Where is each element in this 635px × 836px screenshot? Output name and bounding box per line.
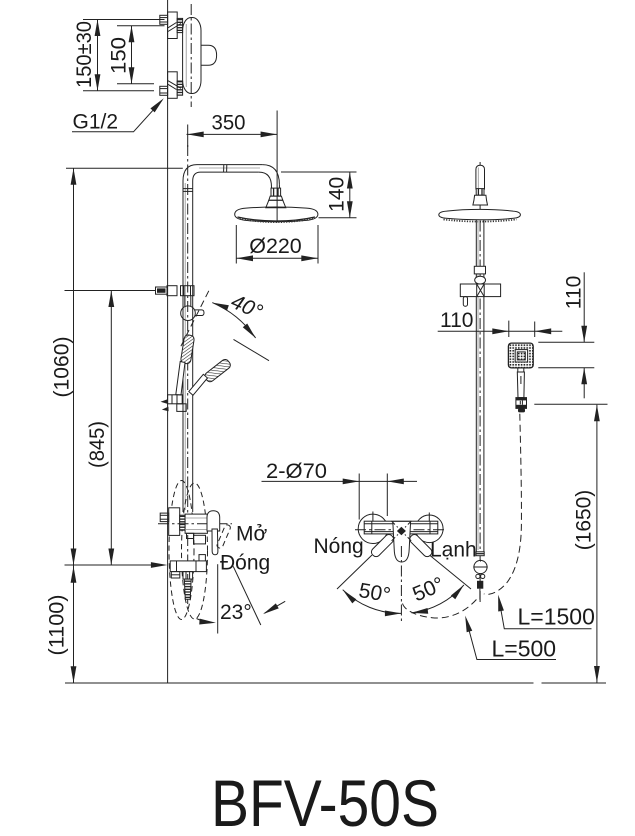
dimension Ø220 extension left [235,225,237,264]
valve lever open (dashed) [216,524,231,549]
dimension Ø220 line and arrows [236,257,318,259]
hand shower tilted handle [189,374,208,395]
dimension 150±30 line and arrows [97,20,99,91]
faucet horizontal centerline [355,529,447,531]
valve handle base [207,511,220,531]
label L=500 leader [466,619,556,660]
holder knob [156,287,168,294]
svg-text:110: 110 [440,309,473,332]
valve body cylinder [185,514,207,533]
valve detail bottom hex nut [160,86,168,95]
right head ball nut [476,189,484,196]
shower arm left elbow [183,165,197,181]
dimension 150 line and arrows [131,26,133,84]
valve detail centerline [190,4,192,107]
hose from valve (L=500) [403,597,479,618]
hand shower upright head [180,334,194,364]
valve detail body [183,18,201,94]
right bracket pin [463,297,467,307]
valve detail bottom threaded inlet [177,81,182,95]
svg-text:23°: 23° [220,601,252,624]
svg-text:G1/2: G1/2 [73,111,119,134]
valve detail bottom eccentric link [168,81,181,90]
valve outlet nut left [171,572,180,578]
dimension (1060) line and arrows [73,168,75,565]
head flare upper [269,196,283,200]
dimension 110 (height) line segments [583,272,585,398]
svg-text:L=1500: L=1500 [518,604,595,630]
dimension 350 extension left [187,125,189,148]
valve hex nut at wall [160,513,169,522]
holder wall block [167,286,177,296]
svg-text:Lạnh: Lạnh [430,539,477,562]
angle 40 deg arc arrows [211,300,228,311]
shower column left wall [182,181,184,512]
valve wall block [169,508,180,536]
valve detail top threaded inlet [177,18,182,32]
dimension (1650) extension top [534,403,607,405]
faucet handle wing right [408,533,433,558]
right valve tail centerline [479,589,481,600]
valve detail knob [201,45,217,65]
overhead head rim shading [238,217,316,221]
shower column joint rings [183,189,193,192]
holder neck [185,296,191,307]
dimension 2-Ø70 arrows [343,479,360,485]
svg-text:50°: 50° [409,573,447,607]
shower column inner shading [184,183,186,510]
dimension 140 line and arrows [349,172,351,218]
dimension Ø220 extension right [317,225,319,264]
hand shower upright handle [176,362,185,396]
hand shower tilted head (40 deg position) [203,358,232,383]
faucet cartridge [393,521,411,562]
right head flare [473,195,488,205]
valve outlet hex [183,572,193,580]
svg-text:(1650): (1650) [573,490,596,551]
extension line top of column [66,167,183,169]
valve bottom assembly [170,561,206,572]
angle 23 deg reference vertical [217,564,219,633]
hand shower neck [518,368,524,372]
svg-text:BFV-50S: BFV-50S [211,766,439,836]
svg-text:Ø220: Ø220 [249,235,302,258]
valve threaded joint [180,515,185,530]
right slider bracket [460,284,500,297]
right valve nut bands [476,552,484,556]
angle 50 left line [337,555,372,589]
right column collar [474,266,485,274]
hand shower axis (dashed) [180,291,209,348]
right valve connector rings [476,574,485,578]
svg-text:150: 150 [108,37,131,74]
svg-text:2-Ø70: 2-Ø70 [266,460,327,483]
dimension 140 extension bottom [319,217,357,219]
angle 40 deg arc [212,303,255,338]
shower column right wall [192,181,194,512]
svg-text:110: 110 [563,276,586,309]
faucet handle wing left [370,533,395,558]
right valve hose block [477,581,483,589]
hand shower hose connector [168,395,183,404]
valve detail top mounting block [168,12,178,39]
overhead shower head (side) [439,209,521,219]
valve body centerline [158,523,232,525]
dimension 350 line and arrows [187,133,278,135]
shower arm bottom line [201,171,259,173]
valve diverter under body [187,533,206,544]
faucet center diamond [397,527,406,535]
dimension 150 extension lines [117,25,165,27]
overhead shower head (front) [235,207,318,222]
hand shower hose tail cap [518,408,525,412]
dimension 150±30 extension lines [83,19,165,21]
dimension 110 (height) extensions [538,342,594,367]
wire: wall vertical line [167,0,169,683]
holder ball joint [181,306,196,321]
dimension 2-Ø70 extension lines [359,474,387,520]
holder ball stub [195,310,204,316]
svg-text:(1100): (1100) [46,595,69,656]
hand shower connector nut below [177,404,186,412]
angle 50 right line [430,556,471,590]
holder clamp on column [181,286,195,296]
angle 40 deg tilted axis line [234,339,270,360]
hand shower square head [508,343,533,368]
svg-text:50°: 50° [357,579,392,607]
overhead head (side) spray stipple [444,220,517,222]
right arm pin (end view) [476,165,485,189]
dimension 2-Ø70 line [262,480,418,482]
svg-text:Đóng: Đóng [220,552,270,575]
wire: floor line left segment [65,682,534,684]
valve swing envelope dashed ellipse left [169,481,194,620]
shower arm top line [197,164,262,166]
svg-text:L=500: L=500 [492,636,557,662]
right column ball joint [475,276,486,284]
holder extension line (845 top) [65,290,156,292]
hand shower hose nut [516,398,527,409]
faucet right escutcheon circle (Lanh) [416,515,444,543]
valve detail top hex nut [160,15,168,24]
svg-text:40°: 40° [227,290,265,324]
svg-text:(1060): (1060) [51,337,74,398]
svg-text:140: 140 [326,177,349,212]
shower arm joint ring [224,165,227,173]
shower arm drop to head [278,185,280,188]
hand shower inner plate [515,350,527,362]
valve bottom knob [199,555,205,561]
valve hose connector ribbed [184,579,191,599]
angle 50 right arc [412,585,464,613]
hose to hand shower (L=1500) [484,414,522,595]
valve handle swing arc arrow [197,619,213,623]
angle 50 left arc [343,590,402,614]
valve detail body inner contour [185,24,187,87]
dimension 110 (width) line [438,330,563,332]
svg-text:Mở: Mở [236,523,267,546]
faucet left escutcheon circle (Nong) [358,514,387,543]
angle 23 deg leader arrow [265,601,286,613]
overhead head spray stipple [240,219,314,223]
wire: floor line right segment [542,682,607,684]
faucet X centerlines [391,521,411,541]
shower arm inner line [199,167,260,169]
hand shower grip [517,372,524,398]
faucet vertical centerline below [400,546,402,624]
angle 23 deg slanted line [233,566,261,625]
svg-text:Nóng: Nóng [314,535,364,558]
svg-text:150±30: 150±30 [73,21,96,88]
dimension (1100) line and arrows [73,565,75,683]
right column centerline [479,162,481,605]
valve lever closed (solid) [212,529,218,555]
valve swing envelope dashed ellipse right [182,483,208,619]
dimension 350 extension right (head centerline) [276,111,278,223]
right valve outlet ball [473,560,487,574]
dimension (1650) line and arrows [596,405,598,683]
faucet body bar [364,521,438,534]
svg-text:350: 350 [212,112,246,135]
dimension 110 (width) extensions [509,321,535,337]
dimension 140 extension top [281,171,357,173]
shower arm right elbow [262,165,279,185]
label L=1500 leader [499,598,592,629]
hand shower inlet wedges [161,399,169,411]
right column walls [476,220,484,552]
valve detail bottom mounting block [168,72,178,99]
svg-text:(845): (845) [86,421,109,468]
head ball nut [271,188,281,196]
label G1/2 leader arrow [72,100,162,132]
faucet circle center ticks [373,512,429,522]
valve detail top eccentric link [168,23,181,32]
dimension (845) line and arrows [110,291,112,566]
shower column centerline [187,145,189,604]
extension line valve center [65,564,162,566]
head flare lower [266,200,286,207]
